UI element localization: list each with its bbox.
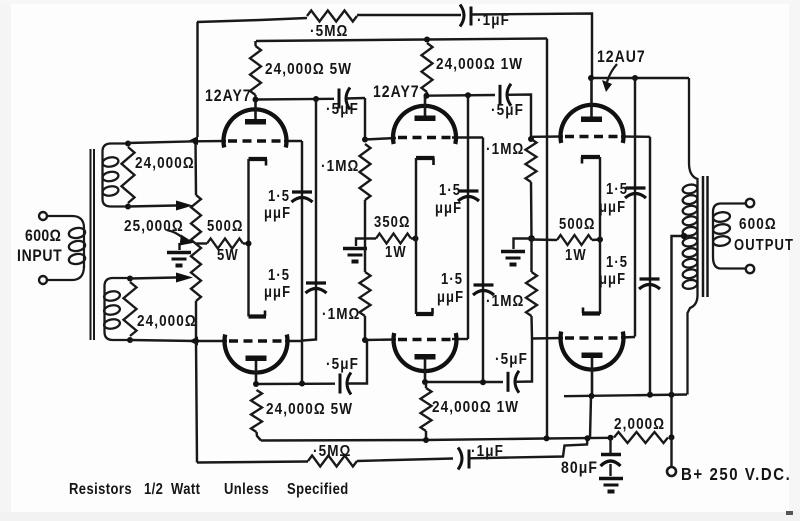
V1b plate bbox=[246, 356, 267, 362]
resistor .1 Megohm (stage2 lower grid) bbox=[360, 272, 371, 316]
V3a plate bbox=[581, 117, 602, 123]
resistor 350 ohm 1W (stage2 cathode) bbox=[376, 234, 411, 244]
svg-text:Watt: Watt bbox=[171, 481, 200, 498]
V2a grid bbox=[398, 136, 452, 139]
svg-text:·1MΩ: ·1MΩ bbox=[486, 293, 524, 310]
svg-text:·1MΩ: ·1MΩ bbox=[322, 306, 360, 323]
wire cathode bus stage2 bbox=[415, 158, 417, 314]
capacitor 1.5uuF stage2 lower (line A) bbox=[482, 138, 484, 383]
wire secondary lower tap with arrow bbox=[130, 278, 176, 279]
transformer T1 secondary upper winding bbox=[103, 144, 129, 207]
ground G3 bbox=[514, 239, 532, 250]
svg-text:24,000Ω 5W: 24,000Ω 5W bbox=[266, 401, 353, 418]
capacitor 80uF bbox=[609, 438, 611, 453]
V2b plate bbox=[415, 354, 436, 360]
svg-text:·5MΩ: ·5MΩ bbox=[310, 23, 348, 40]
V1a cathode bbox=[249, 157, 268, 161]
resistor 24,000 ohm (across upper secondary) bbox=[122, 147, 135, 203]
svg-text:μμF: μμF bbox=[264, 205, 291, 222]
svg-text:·1MΩ: ·1MΩ bbox=[486, 141, 524, 158]
wire feedback top rail bbox=[196, 22, 198, 137]
V2b cathode bbox=[416, 312, 434, 316]
svg-text:·5μF: ·5μF bbox=[326, 101, 359, 118]
svg-text:24,000Ω: 24,000Ω bbox=[137, 313, 197, 330]
wire 12AU7 lower plate to supply node bbox=[590, 396, 591, 438]
wire stage2 bottom plate line bbox=[425, 381, 503, 383]
resistor 500 ohm 5W (stage1 cathode) bbox=[196, 242, 207, 244]
V3a cathode bbox=[581, 155, 600, 159]
capacitor 1.5uuF stage3 lower bbox=[649, 137, 651, 395]
svg-text:2,000Ω: 2,000Ω bbox=[614, 416, 665, 433]
wire stage1 top grid line bbox=[128, 141, 226, 143]
V3b cathode bbox=[582, 311, 600, 315]
feedback arrow into input grid bbox=[189, 136, 198, 145]
V1a grid bbox=[228, 139, 283, 142]
wire cathode bus stage1 bbox=[247, 159, 249, 317]
wire center tap to supply node bbox=[670, 395, 672, 438]
wire primary top lead bbox=[688, 78, 698, 395]
wire stage1 bottom grid line bbox=[130, 340, 227, 341]
wire stage2 top grid line bbox=[365, 138, 396, 140]
wire top feedback to 12AU7 plate bbox=[471, 14, 592, 79]
scan border right bbox=[789, 0, 800, 521]
capacitor 1.5uuF stage1 lower (line B) bbox=[303, 99, 316, 341]
V2a plate bbox=[415, 116, 436, 122]
resistor 24,000 ohm (across lower secondary) bbox=[124, 282, 137, 336]
svg-text:24,000Ω 1W: 24,000Ω 1W bbox=[432, 399, 519, 416]
capacitor 1.5uuF stage2 upper (line B) bbox=[467, 95, 469, 339]
svg-text:12AY7: 12AY7 bbox=[373, 83, 420, 101]
wire supply rail bbox=[261, 438, 611, 441]
scan border bottom band bbox=[0, 512, 800, 521]
transformer T1 primary winding bbox=[68, 227, 86, 240]
svg-text:INPUT: INPUT bbox=[17, 247, 62, 265]
resistor .1 Megohm (stage3 upper grid) bbox=[528, 136, 534, 142]
capacitor 1.5uuF stage3 upper bbox=[634, 78, 636, 337]
transformer T2 primary winding bbox=[682, 183, 698, 194]
svg-text:600Ω: 600Ω bbox=[739, 216, 777, 233]
svg-text:μμF: μμF bbox=[599, 199, 626, 216]
svg-text:1W: 1W bbox=[565, 247, 587, 264]
tube V1b 12AY7 lower triode envelope bbox=[225, 335, 288, 373]
svg-text:μμF: μμF bbox=[599, 271, 626, 288]
transformer T1 secondary lower winding bbox=[105, 278, 131, 340]
input terminal top bbox=[39, 212, 47, 220]
resistor 2,000 ohm bbox=[614, 432, 668, 443]
input terminal bottom bbox=[39, 276, 47, 284]
svg-text:350Ω: 350Ω bbox=[374, 214, 410, 231]
svg-text:24,000Ω: 24,000Ω bbox=[135, 155, 195, 172]
wire primary center tap bbox=[672, 236, 684, 395]
tube V1a 12AY7 upper triode envelope bbox=[224, 109, 287, 147]
svg-text:80μF: 80μF bbox=[561, 459, 598, 477]
resistor 24,000 ohm 5W (stage1 bottom plate load) bbox=[251, 390, 262, 432]
V1b cathode bbox=[249, 314, 267, 318]
wire stage3 bottom plate line bbox=[564, 395, 687, 397]
resistor 24,000 ohm 1W (stage2 bottom plate load) bbox=[421, 388, 432, 431]
wire stage3 top grid line bbox=[531, 135, 563, 138]
svg-text:μμF: μμF bbox=[264, 284, 291, 301]
svg-text:Resistors: Resistors bbox=[69, 481, 132, 498]
wire input top lead bbox=[47, 216, 84, 268]
V1a plate bbox=[245, 119, 266, 125]
tube V3a 12AU7 upper triode envelope bbox=[561, 105, 624, 143]
svg-text:1/2: 1/2 bbox=[144, 481, 163, 498]
svg-text:12AU7: 12AU7 bbox=[597, 48, 646, 66]
svg-text:1·5: 1·5 bbox=[441, 271, 463, 288]
potentiometer 25,000 ohm bbox=[194, 141, 197, 195]
wire secondary upper tap with arrow bbox=[128, 206, 176, 207]
svg-text:500Ω: 500Ω bbox=[559, 216, 595, 233]
output terminal top bbox=[746, 199, 754, 207]
svg-text:500Ω: 500Ω bbox=[207, 218, 243, 235]
wire stage2 top plate line bbox=[426, 94, 496, 97]
svg-text:1·5: 1·5 bbox=[268, 267, 290, 284]
capacitor .5uF (stage2 bottom coupling) bbox=[507, 372, 510, 392]
ground G1 (wiper) bbox=[178, 243, 180, 250]
V3b grid bbox=[565, 336, 620, 339]
resistor 24,000 ohm 5W (stage1 top plate load) bbox=[254, 41, 256, 46]
wire feedback bottom vertical bbox=[196, 341, 197, 463]
B+ terminal bbox=[670, 437, 672, 466]
svg-text:600Ω: 600Ω bbox=[25, 227, 61, 245]
wire cathode bus stage3 bbox=[599, 157, 601, 314]
resistor 24,000 ohm 1W (stage2 top plate load) bbox=[424, 37, 430, 43]
transformer T2 secondary winding bbox=[713, 204, 745, 269]
V2a cathode bbox=[416, 156, 435, 160]
ground G2 bbox=[356, 239, 365, 247]
svg-text:24,000Ω 5W: 24,000Ω 5W bbox=[265, 61, 352, 78]
resistor .5 Megohm (top feedback) bbox=[307, 11, 357, 22]
ground G4 bbox=[599, 477, 623, 481]
svg-text:OUTPUT: OUTPUT bbox=[734, 237, 794, 254]
svg-text:1·5: 1·5 bbox=[268, 188, 290, 205]
output terminal bottom bbox=[746, 265, 754, 273]
svg-text:12AY7: 12AY7 bbox=[205, 87, 252, 105]
capacitor .5uF (stage2 top coupling) bbox=[499, 85, 502, 105]
resistor .5 Megohm (bottom feedback) bbox=[308, 456, 357, 467]
tube V3b 12AU7 lower triode envelope bbox=[561, 332, 624, 370]
scan border left bbox=[0, 0, 11, 521]
capacitor 1.5uuF stage1 upper (line A) bbox=[301, 141, 303, 384]
12AU7 pointer arrow bbox=[607, 64, 617, 82]
svg-text:μμF: μμF bbox=[437, 289, 464, 306]
wire stage2 bottom grid line bbox=[365, 338, 396, 341]
wire B+ dropper vertical bbox=[546, 39, 548, 438]
svg-text:B+ 250 V.DC.: B+ 250 V.DC. bbox=[681, 465, 791, 484]
svg-text:1W: 1W bbox=[385, 244, 407, 261]
svg-text:5W: 5W bbox=[217, 247, 239, 264]
transformer T1 core bbox=[90, 149, 92, 340]
svg-text:Specified: Specified bbox=[287, 481, 349, 498]
wire B+ distribution rail (upper) bbox=[256, 39, 547, 42]
V2b grid bbox=[398, 338, 452, 341]
wire stage3 bottom grid line bbox=[532, 337, 563, 340]
svg-text:·5MΩ: ·5MΩ bbox=[313, 443, 351, 460]
svg-text:1·5: 1·5 bbox=[606, 254, 628, 271]
svg-text:Unless: Unless bbox=[224, 481, 269, 498]
capacitor .5uF (stage1 bottom coupling) bbox=[339, 374, 342, 394]
svg-text:1·5: 1·5 bbox=[439, 182, 461, 199]
svg-text:·5μF: ·5μF bbox=[491, 102, 524, 119]
svg-text:·5μF: ·5μF bbox=[495, 351, 528, 368]
V3a grid bbox=[565, 135, 620, 138]
svg-text:·1MΩ: ·1MΩ bbox=[321, 158, 359, 175]
wire input bottom lead bbox=[47, 266, 84, 280]
resistor .1 Megohm (stage3 lower grid) bbox=[526, 272, 537, 316]
tube V2a 12AY7 upper triode envelope bbox=[393, 106, 456, 144]
wire stage1 bottom plate line bbox=[256, 382, 335, 385]
transformer T2 core bbox=[702, 176, 705, 297]
svg-text:μμF: μμF bbox=[435, 200, 462, 217]
svg-text:1·5: 1·5 bbox=[606, 181, 628, 198]
pot wiper arrow bbox=[167, 230, 183, 238]
resistor 500 ohm 1W (stage3 cathode) bbox=[532, 238, 558, 241]
capacitor .5uF (stage1 top coupling) bbox=[338, 89, 341, 109]
V3b plate bbox=[582, 353, 603, 359]
svg-text:·5μF: ·5μF bbox=[326, 356, 359, 373]
wire stage1 top plate line bbox=[255, 98, 334, 101]
tube V2b 12AY7 lower triode envelope bbox=[394, 333, 457, 371]
V1b grid bbox=[229, 339, 284, 342]
capacitor .1uF (top feedback) bbox=[460, 5, 464, 27]
wire 12AU7 plate rail (y78) bbox=[591, 77, 689, 79]
wire feedback bottom rail bbox=[197, 462, 308, 463]
resistor .1 Megohm (stage2 upper grid) bbox=[364, 98, 366, 140]
svg-text:24,000Ω 1W: 24,000Ω 1W bbox=[436, 56, 523, 73]
capacitor .1uF (bottom feedback) bbox=[458, 448, 462, 470]
feedback arrow into lower input grid bbox=[189, 337, 198, 346]
